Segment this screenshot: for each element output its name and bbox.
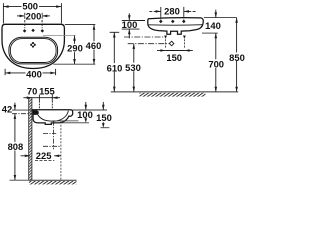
basin outline front [148,18,204,35]
centreline holes front (dash-dot A) [124,36,166,38]
svg-text:70: 70 [27,85,37,96]
dimension 850 [236,18,238,92]
ext line bowl top (grey) [43,34,75,36]
svg-text:460: 460 [86,40,102,51]
tap hole left plan [23,29,27,32]
svg-text:530: 530 [125,62,141,73]
floor hatch front view [140,93,206,97]
tap hole centre front [171,20,175,24]
dimension 610 [110,32,120,92]
svg-text:100: 100 [77,109,93,120]
dimension 700 [215,33,217,92]
floor line side view [29,179,77,181]
rim ext line left [12,109,32,111]
bowl outer rim [9,37,58,64]
svg-text:280: 280 [164,5,180,16]
dimension 808 [14,114,16,181]
basin outline plan [2,24,64,68]
floor line front view [111,91,238,93]
rim ext line right [73,109,108,111]
trap centreline vertical (dash-dot) [52,121,54,150]
svg-text:200: 200 [26,11,42,22]
svg-text:155: 155 [39,85,55,96]
dimension 200 [17,13,50,28]
svg-text:610: 610 [107,62,123,73]
fixing hole right marker [183,36,186,39]
tap hole left front [159,20,163,24]
drain hole front (open diamond) [169,41,174,46]
svg-text:290: 290 [67,43,83,54]
dimension 42 [14,103,16,111]
tap hole right plan [41,29,45,32]
svg-text:150: 150 [96,112,112,123]
dimension 280 [149,7,196,20]
ext line basin underside [52,120,79,122]
drain plan [30,42,36,48]
trap centreline horizontal 2 [43,145,61,147]
fixing hole left marker [164,36,167,39]
svg-text:850: 850 [229,52,245,63]
ext line plan top right [65,24,96,26]
ext line bowl bottom [53,63,95,65]
centreline drain front (dash-dot B) [128,43,169,45]
ext line holes right [202,32,218,34]
svg-text:225: 225 [36,150,52,161]
bowl inner rim [10,39,56,63]
dimension 290 [74,36,76,65]
fixing hole centreline left (dash-dot) [12,113,38,115]
dimension 500 [3,3,61,23]
dimension 530 [133,44,135,92]
svg-text:42: 42 [2,103,12,114]
ext line rim top right [204,17,237,19]
tap hole centre plan [31,29,35,32]
basin profile side [32,110,73,125]
dimension 70 / 155 [23,95,60,110]
floor ext line left [10,179,29,181]
dimension 100 side lower arrow [85,118,87,119]
hidden line horizontal low [35,160,54,162]
svg-text:808: 808 [8,141,24,152]
dimension 225 [21,155,30,157]
dimension 140 [215,10,217,18]
svg-text:100: 100 [122,19,138,30]
svg-text:140: 140 [205,20,221,31]
wall [29,97,32,180]
drain pipe hidden line vertical [60,122,62,181]
fixing bracket side [32,110,38,115]
floor hatch side view [29,181,77,184]
dimension 150 front [157,50,193,52]
dimension 100 side [85,102,87,110]
svg-text:150: 150 [166,52,182,63]
dimension 100 front [122,13,145,38]
svg-text:700: 700 [208,58,224,69]
trap centreline horizontal 1 [43,132,56,134]
dimension 400 [5,69,56,75]
tap hole right front [182,20,186,24]
dimension 460 [93,25,95,65]
svg-text:400: 400 [26,69,42,80]
dimension 150 side [102,102,104,110]
